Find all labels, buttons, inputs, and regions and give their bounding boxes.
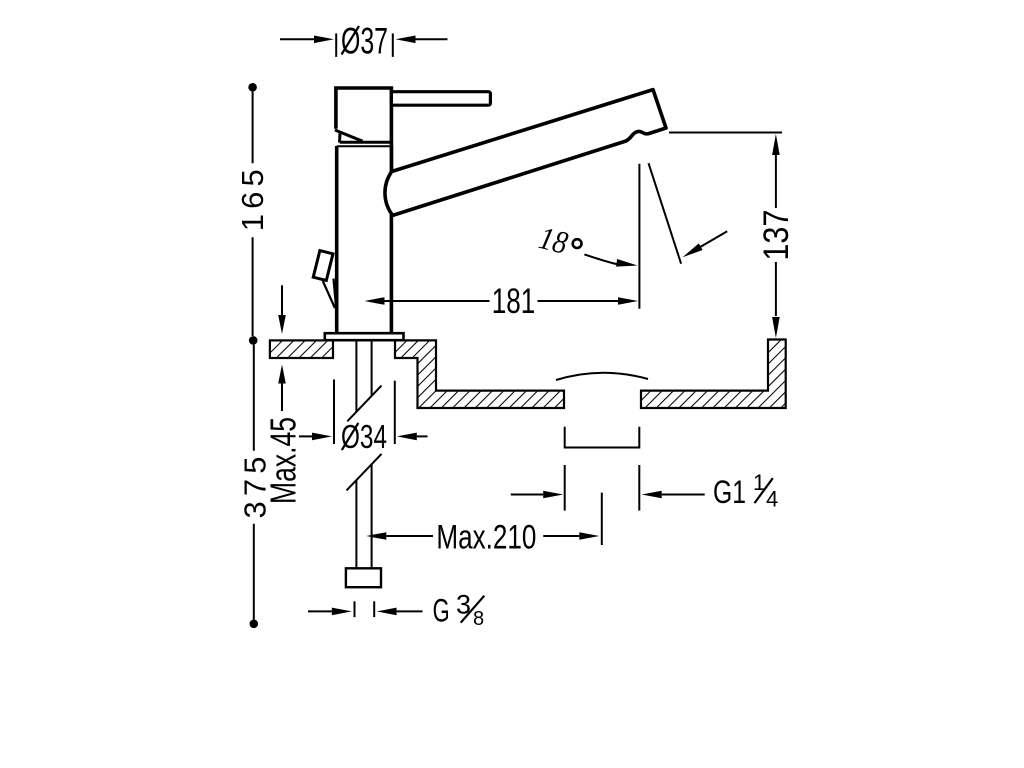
drain cup [565,427,640,448]
svg-text:Max.45: Max.45 [262,417,303,504]
svg-text:165: 165 [235,169,270,231]
supply pipe upper segment [356,340,371,412]
dimension 181 [365,164,640,321]
supply pipe lower segment [356,464,371,568]
G3/8 connector [346,568,381,587]
dimension Max.45 [262,285,303,504]
faucet body column [335,146,393,333]
countertop right band with raised edge [641,340,786,409]
basin arc over drain [556,373,648,380]
svg-text:3: 3 [456,590,471,620]
spout [385,90,666,216]
handle block [335,88,392,172]
countertop right stepped section [395,340,564,408]
angle 18 degrees [536,163,728,266]
body top joint line [337,145,392,147]
base plate flange [325,333,404,340]
pipe break slash upper [347,386,381,422]
pop-up lever rod [323,279,336,309]
dimension 137 right [669,133,796,339]
dimension 375 left [237,345,272,628]
svg-text:G: G [433,593,450,629]
handle lever [391,92,490,106]
svg-text:8: 8 [473,608,484,630]
dimension 165 left [235,83,270,345]
dimension Max.210 [366,493,602,557]
pop-up drain lever knob [313,251,333,281]
dimension Ø34 [299,380,428,456]
svg-text:4: 4 [766,487,778,512]
dimension Ø37 top [280,21,448,62]
pipe break slash lower [347,454,382,491]
dimension G 3/8 [308,590,484,630]
countertop left slab [270,340,333,358]
dimension G1 1/4 [511,465,778,512]
svg-text:G1: G1 [713,474,746,510]
svg-text:137: 137 [757,210,796,261]
svg-text:Max.210: Max.210 [436,519,536,557]
svg-text:O34: O34 [341,418,387,455]
svg-text:181: 181 [492,282,536,321]
svg-text:O37: O37 [341,21,388,62]
